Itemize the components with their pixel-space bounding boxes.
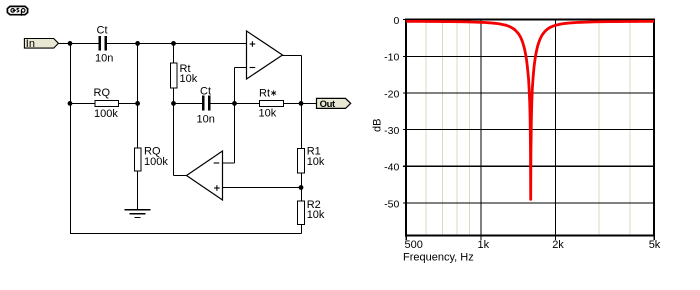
svg-text:1k: 1k [477,239,489,251]
wire mid row node to Ct2 [174,102,203,104]
chart minor grid verticals [426,20,630,236]
In tag [24,38,58,50]
wire In to node A [59,43,317,233]
chart border [406,20,654,236]
chart major verticals 1k 2k and bottom ticks [406,20,654,240]
resistor R1 10k [298,149,305,174]
wire U1 output down to out node [301,56,303,104]
wire x=173.5 down to U2 output level [173,103,175,175]
chart horizontal dB gridlines with left ticks [403,20,654,203]
svg-text:Out: Out [320,99,336,110]
wire RQ vertical resistor to ground [137,171,139,209]
svg-text:10k: 10k [180,73,198,85]
ground [125,210,151,218]
resistor RQ horizontal 100k [95,101,119,107]
wire x=137.5 top row to RQ row [137,43,139,103]
U1 + input symbol [250,41,256,47]
node dot R1/R2 [299,185,304,190]
resistor RQ vertical 100k [135,148,142,171]
op-amp U2 [187,151,223,200]
svg-text:100k: 100k [94,108,118,120]
wire U1 output horizontal [283,55,302,57]
node dot out [299,101,304,106]
wire RQ row left [70,102,95,104]
svg-text:In: In [26,38,35,50]
wire U2 inverting column from mid row [234,103,236,163]
node dot mid row x=234.5 [232,101,237,106]
svg-text:RQ: RQ [94,87,111,99]
wire top row node A to Ct [70,42,99,44]
svg-text:5k: 5k [649,239,661,251]
svg-text:10k: 10k [307,156,325,168]
svg-text:-40: -40 [384,162,399,174]
svg-text:500: 500 [405,239,423,251]
svg-text:-10: -10 [384,52,399,64]
node dot top x=173.5 [171,41,176,46]
wire mid row Rt* to out node and Out tag [284,102,317,104]
wire top row Ct to op-amp U1 + input [107,42,247,44]
svg-text:Frequency, Hz: Frequency, Hz [403,252,474,264]
svg-text:Rt: Rt [259,88,270,100]
wire U1 inverting column [234,68,236,104]
wire left column x=70 down to bottom rail [70,43,72,233]
wire U1 inverting input horizontal [235,67,247,69]
wire RQ row right [119,102,138,104]
x axis labels [405,239,661,251]
response curve [406,21,654,199]
svg-text:Ct: Ct [200,86,211,98]
wire U2 non-inverting input to R1/R2 node [223,187,302,189]
wire out node down to R1 [301,103,303,148]
wire R1 to R2 node [301,173,303,201]
node dot RQ row right [135,101,140,106]
ESP logo [7,6,27,15]
op-amp U1 [247,31,283,79]
svg-text:100k: 100k [144,156,168,168]
asterisk mark of Rt* [271,90,276,95]
svg-text:10n: 10n [197,113,215,125]
svg-text:2k: 2k [552,239,564,251]
wire Rt top to top row [173,43,175,63]
capacitor Ct input 10n [100,36,106,51]
svg-text:-30: -30 [384,125,399,137]
capacitor Ct second 10n [203,96,209,111]
svg-text:0: 0 [393,15,399,27]
svg-text:-50: -50 [384,198,399,210]
wire mid row Ct2 to Rt* [210,102,260,104]
wire U2 inverting input horizontal [223,162,235,164]
wire Rt bottom to mid row node [173,88,175,103]
wire x=137.5 RQ row down to RQ vertical resistor [137,103,139,148]
wire to U2 output apex [174,175,187,177]
svg-text:10n: 10n [95,53,113,65]
wire bottom rail [70,233,302,235]
svg-text:Ct: Ct [97,24,108,36]
Out tag [317,98,351,110]
U2 - input symbol [214,162,220,164]
resistor R2 10k [298,201,305,225]
wire R2 to bottom rail [301,225,303,234]
node dot input A [68,41,73,46]
svg-text:dB: dB [372,119,384,132]
resistor Rt vertical 10k [171,63,178,88]
y axis labels [384,15,399,210]
node dot top x=137.5 [135,41,140,46]
U1 - input symbol [250,67,256,69]
svg-text:10k: 10k [307,209,325,221]
resistor Rt* 10k [260,101,284,107]
svg-text:-20: -20 [384,88,399,100]
node dot RQ row left [68,101,73,106]
node dot mid row x=173.5 [171,101,176,106]
svg-text:10k: 10k [259,108,277,120]
U2 + input symbol [214,185,220,191]
